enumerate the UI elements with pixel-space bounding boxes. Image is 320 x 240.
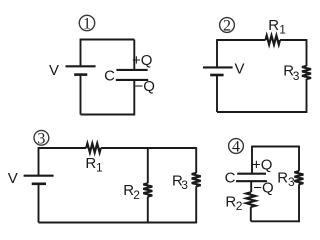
wire right upper c1 — [133, 40, 135, 70]
resistor R3 c2 — [302, 66, 311, 79]
svg-text:+Q: +Q — [252, 157, 272, 174]
wire left lower c3 — [38, 184, 40, 223]
wire right lower c3 — [195, 186, 197, 223]
wire bottom c3 — [39, 222, 197, 224]
resistor R2 c3 — [143, 183, 152, 196]
battery V1 short plate — [74, 73, 87, 76]
resistor R2 c4 — [246, 192, 255, 207]
svg-text:C: C — [225, 170, 236, 187]
wire top right c2 — [280, 39, 307, 41]
wire bottom c4 — [251, 220, 300, 222]
svg-text:4: 4 — [232, 139, 240, 156]
wire left middle c4 — [250, 181, 252, 192]
capacitor C bottom plate — [116, 79, 148, 81]
wire top right c3 — [101, 147, 196, 149]
wire top c1 — [81, 39, 135, 41]
svg-text:1: 1 — [96, 161, 103, 175]
circled label 2 — [220, 18, 235, 35]
wire left lower c4 — [250, 207, 252, 221]
wire right lower c1 — [133, 80, 135, 116]
wire top left c3 — [39, 147, 87, 149]
svg-text:3: 3 — [181, 178, 188, 192]
battery V3 long plate — [24, 175, 54, 177]
resistor R3 c4 — [294, 171, 303, 184]
wire left lower c2 — [216, 75, 218, 112]
svg-text:R: R — [85, 155, 96, 172]
wire bottom c1 — [81, 114, 135, 116]
wire right lower c4 — [298, 184, 300, 222]
resistor R1 c3 — [86, 144, 101, 153]
svg-text:2: 2 — [236, 199, 243, 213]
svg-text:V: V — [8, 170, 18, 187]
wire middle branch lower c3 — [147, 197, 149, 223]
circled label 3 — [34, 130, 49, 147]
svg-text:V: V — [49, 62, 59, 79]
wire middle branch upper c3 — [147, 148, 149, 183]
circled label 1 — [79, 15, 94, 32]
wire right upper c2 — [306, 39, 308, 66]
svg-text:1: 1 — [83, 16, 91, 33]
svg-text:3: 3 — [293, 69, 300, 83]
wire left upper c4 — [251, 146, 253, 174]
wire bottom c2 — [217, 111, 307, 113]
wire right upper c3 — [195, 147, 197, 173]
svg-text:V: V — [235, 61, 245, 78]
svg-text:R: R — [225, 194, 236, 211]
wire top left c2 — [217, 39, 266, 41]
wire right lower c2 — [306, 79, 308, 113]
capacitor C top plate — [116, 69, 147, 71]
battery V2 long plate — [203, 66, 233, 68]
wire top c4 — [252, 146, 300, 148]
wire left upper c2 — [216, 39, 218, 66]
wire left lower c1 — [80, 75, 82, 115]
capacitor C bottom plate c4 — [236, 180, 267, 182]
resistor R3 c3 — [192, 173, 201, 186]
svg-text:C: C — [104, 68, 115, 85]
svg-text:R: R — [277, 169, 288, 186]
capacitor C top plate c4 — [237, 173, 266, 175]
svg-text:+Q: +Q — [132, 52, 152, 69]
battery V1 long plate — [66, 65, 96, 67]
wire right upper c4 — [298, 146, 300, 172]
svg-text:3: 3 — [37, 130, 45, 147]
wire left upper c3 — [38, 147, 40, 175]
svg-text:−Q: −Q — [253, 180, 273, 197]
battery V3 short plate — [32, 183, 46, 186]
svg-text:1: 1 — [279, 23, 286, 37]
svg-text:3: 3 — [288, 175, 295, 189]
wire left upper c1 — [80, 39, 82, 66]
battery V2 short plate — [210, 74, 223, 77]
circled label 4 — [229, 139, 244, 156]
svg-text:2: 2 — [133, 188, 140, 202]
svg-text:R: R — [268, 17, 279, 34]
resistor R1 c2 — [266, 36, 281, 45]
svg-text:2: 2 — [223, 18, 231, 35]
svg-text:−Q: −Q — [135, 78, 155, 95]
